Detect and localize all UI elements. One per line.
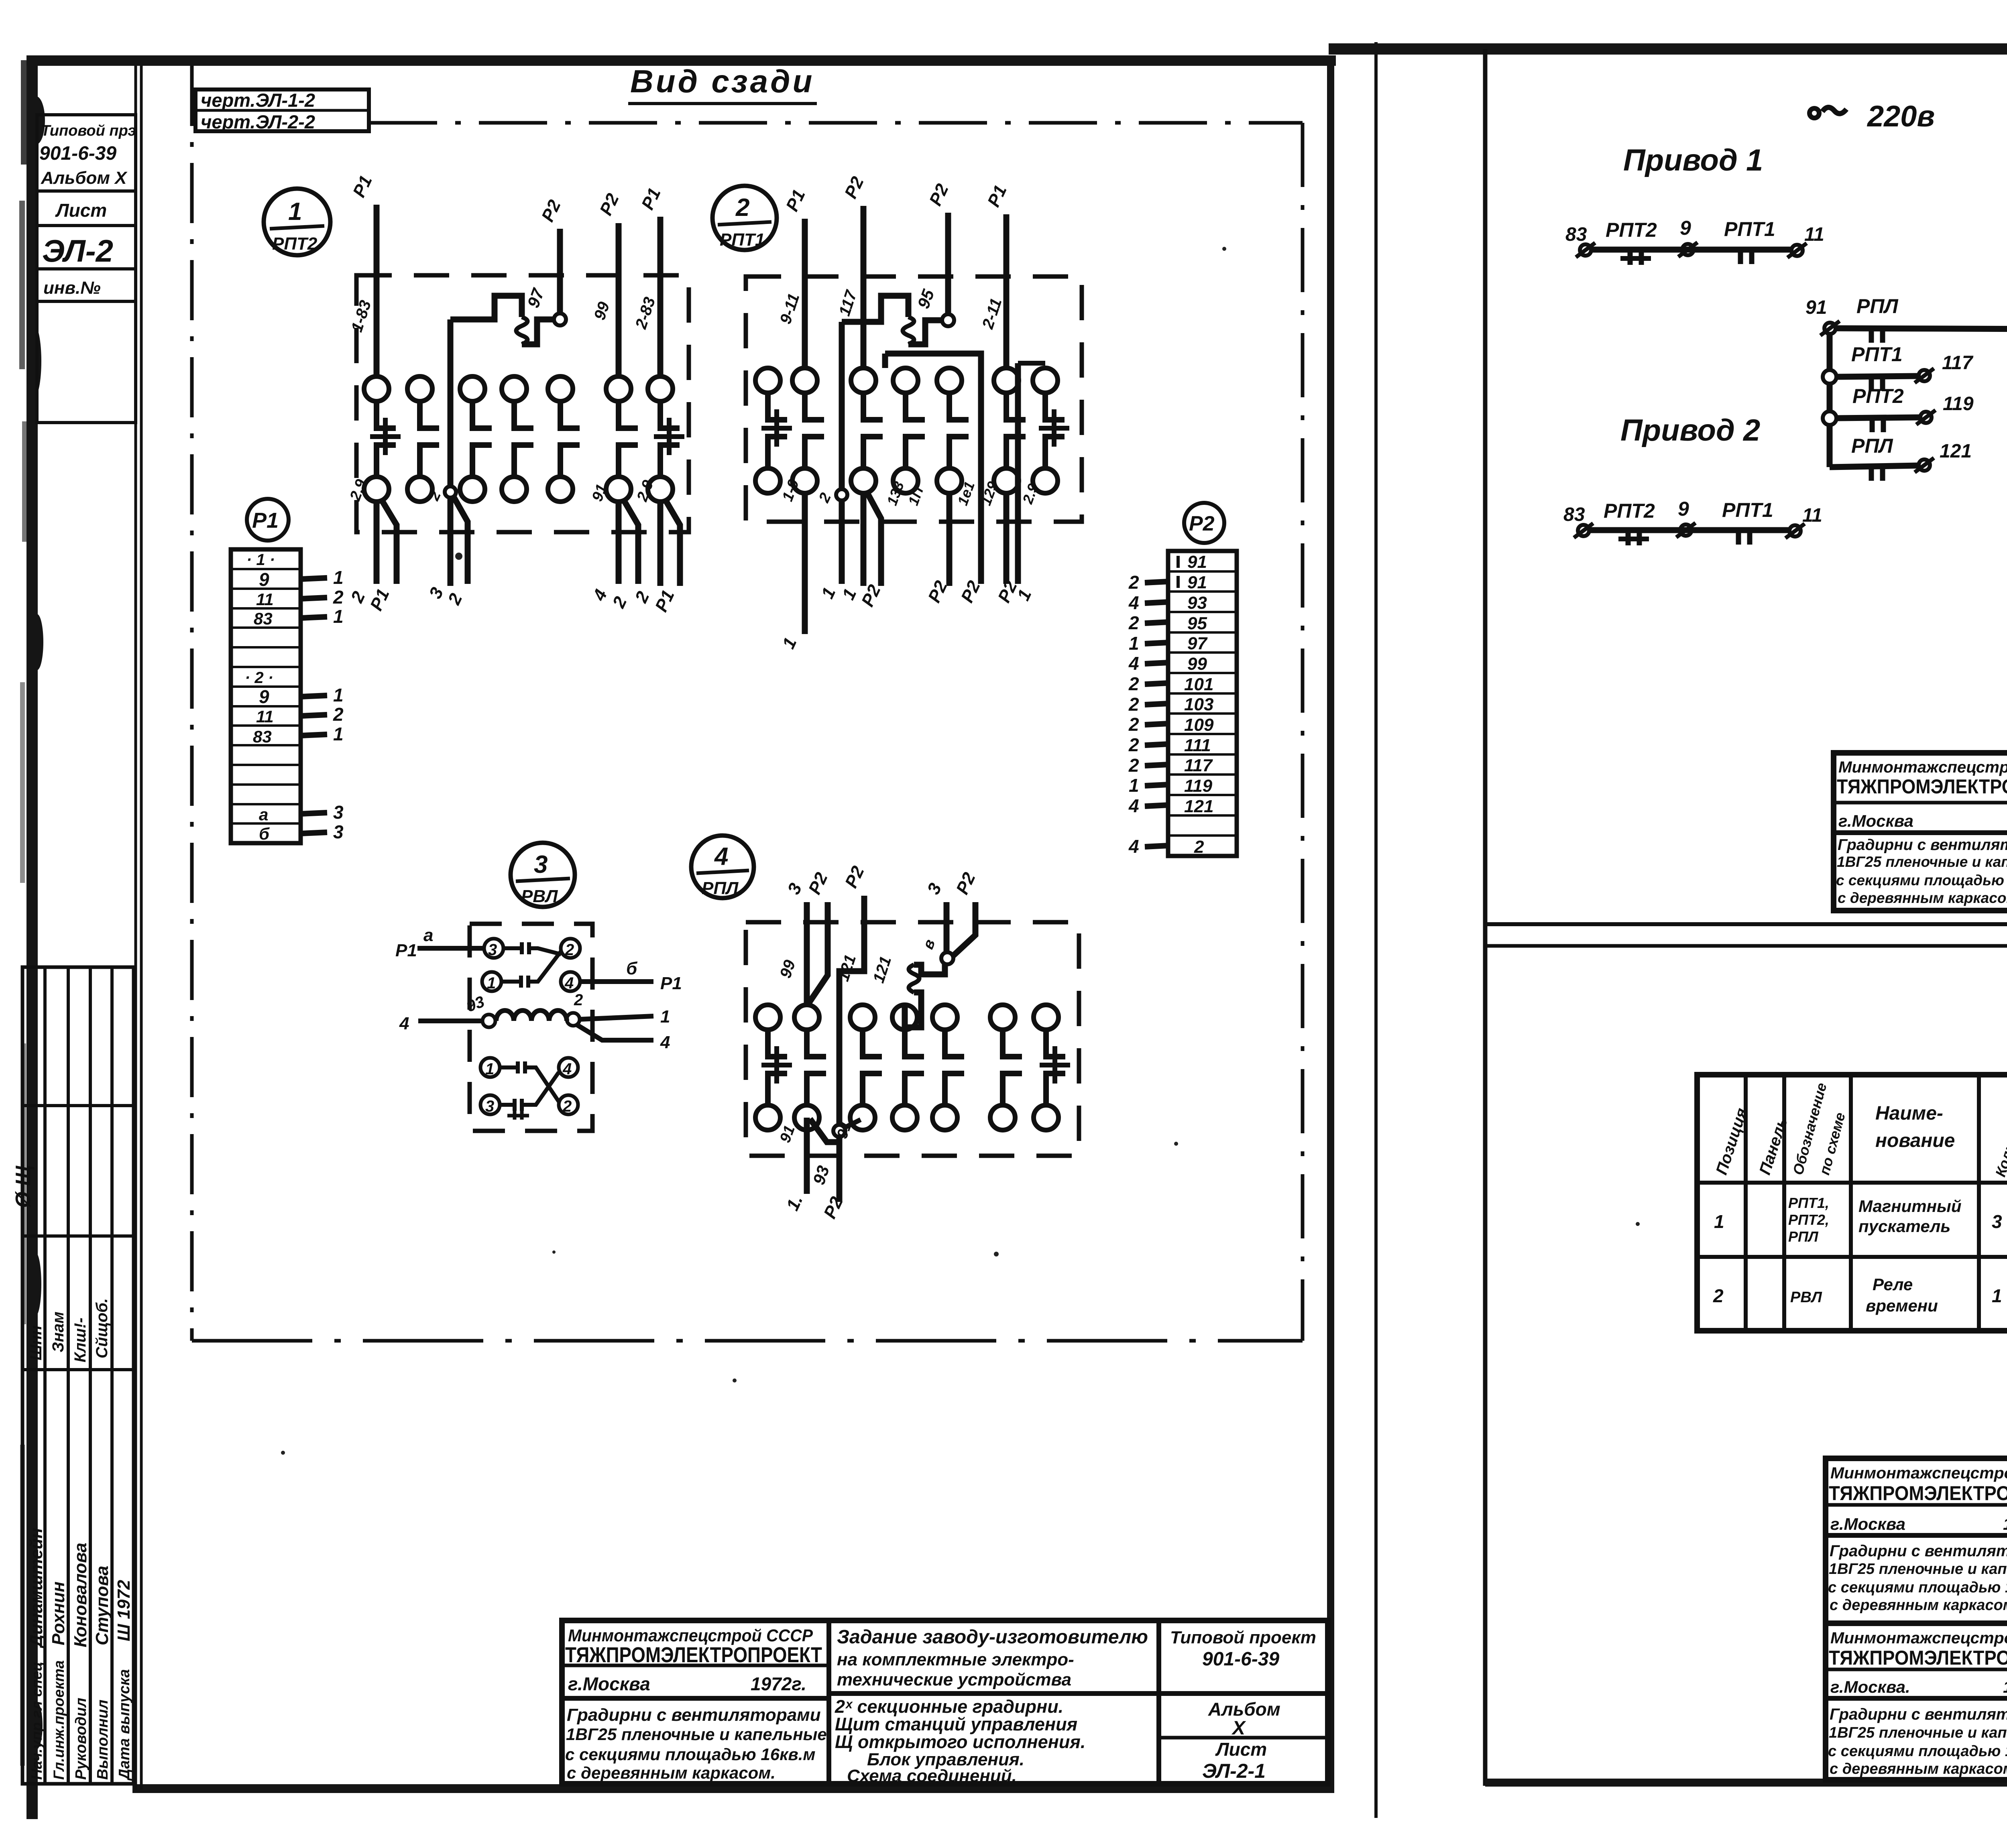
svg-text:Дата выпуска: Дата выпуска bbox=[116, 1669, 133, 1781]
svg-text:Р2: Р2 bbox=[538, 197, 565, 225]
right upper subsheet bottom edge double lines bbox=[1486, 924, 2007, 946]
svg-text:РПТ1: РПТ1 bbox=[1724, 218, 1775, 240]
svg-text:1П: 1П bbox=[905, 484, 927, 508]
svg-text:2: 2 bbox=[1128, 734, 1139, 755]
svg-text:2: 2 bbox=[1128, 673, 1139, 694]
svg-text:времени: времени bbox=[1866, 1296, 1938, 1315]
svg-text:9-11: 9-11 bbox=[777, 291, 803, 326]
svg-text:91: 91 bbox=[1805, 297, 1827, 318]
svg-text:Р1: Р1 bbox=[984, 182, 1011, 210]
svg-text:б: б bbox=[626, 959, 638, 978]
drawing frame dash-dot left vertical bbox=[190, 66, 194, 1341]
dashed enclosure РПТ2 bbox=[356, 275, 689, 532]
svg-text:2: 2 bbox=[1128, 714, 1139, 735]
stamp box: empty bbox=[37, 301, 136, 423]
wire: rail and long drops columns 4-5 bbox=[885, 354, 1045, 584]
dashed enclosure РВЛ bbox=[470, 924, 592, 1131]
svg-text:Р1: Р1 bbox=[349, 173, 376, 200]
svg-text:2.9: 2.9 bbox=[1019, 482, 1042, 506]
svg-text:Минмонтажспецстрой СССР: Минмонтажспецстрой СССР bbox=[568, 1626, 813, 1645]
svg-text:3: 3 bbox=[488, 941, 497, 959]
svg-text:83: 83 bbox=[254, 609, 273, 628]
svg-text:Количество: Количество bbox=[1992, 1088, 2007, 1179]
svg-text:1ВГ25 пленочные и капельные: 1ВГ25 пленочные и капельные bbox=[1829, 1724, 2007, 1741]
svg-text:с деревянным каркасом.: с деревянным каркасом. bbox=[1838, 890, 2007, 906]
svg-text:99: 99 bbox=[1187, 654, 1207, 674]
svg-text:ТЯЖПРОМЭЛЕКТРОПРОЕКТ: ТЯЖПРОМЭЛЕКТРОПРОЕКТ bbox=[1837, 775, 2007, 798]
svg-text:Лист: Лист bbox=[1215, 1739, 1267, 1760]
svg-text:103: 103 bbox=[1184, 695, 1213, 714]
svg-text:901-6-39: 901-6-39 bbox=[1202, 1649, 1279, 1670]
svg-text:РПЛ: РПЛ bbox=[1851, 435, 1893, 457]
svg-text:1: 1 bbox=[660, 1007, 670, 1027]
contact columns РПТ2 bbox=[364, 376, 684, 502]
drawing frame bottom bbox=[192, 1339, 1303, 1343]
Р1 leads group 2 bbox=[301, 685, 344, 744]
svg-text:11: 11 bbox=[1804, 224, 1824, 245]
svg-text:83: 83 bbox=[253, 727, 272, 746]
stamp box: инв № bbox=[37, 269, 136, 301]
svg-text:Лист: Лист bbox=[55, 200, 107, 221]
svg-text:· 2 ·: · 2 · bbox=[245, 669, 273, 687]
title Вид сзади bbox=[628, 63, 817, 104]
svg-text:· 1 ·: · 1 · bbox=[246, 551, 275, 569]
svg-text:2: 2 bbox=[333, 587, 344, 608]
svg-text:Знам: Знам bbox=[49, 1311, 67, 1352]
signature grid bbox=[22, 967, 134, 1784]
svg-text:ЭЛ-2-1: ЭЛ-2-1 bbox=[1202, 1760, 1266, 1782]
svg-text:1: 1 bbox=[1014, 586, 1036, 604]
symbol circle Р2 bbox=[1184, 503, 1224, 543]
stamp box: ЭЛ-2 bbox=[37, 226, 136, 269]
wire: stub Р2 long vertical column 3 bbox=[835, 863, 868, 1131]
svg-text:Р2: Р2 bbox=[841, 863, 868, 891]
label Привод 1 bbox=[1623, 143, 1763, 177]
svg-text:4: 4 bbox=[1128, 592, 1139, 613]
svg-text:Ш 1972: Ш 1972 bbox=[114, 1580, 134, 1641]
labels under long drops bbox=[957, 479, 1021, 606]
svg-text:Схема соединений.: Схема соединений. bbox=[847, 1766, 1017, 1786]
svg-text:3: 3 bbox=[485, 1098, 494, 1115]
svg-text:2: 2 bbox=[347, 588, 369, 606]
symbol circle 2/РПТ1 bbox=[712, 186, 777, 250]
symbol circle 1/РПТ2 bbox=[264, 189, 330, 255]
svg-text:97: 97 bbox=[523, 286, 548, 311]
svg-text:3: 3 bbox=[1992, 1211, 2002, 1232]
svg-text:9: 9 bbox=[259, 686, 269, 707]
svg-text:Реле: Реле bbox=[1873, 1275, 1913, 1294]
svg-text:11: 11 bbox=[256, 707, 274, 726]
stamp box: project id bbox=[37, 115, 136, 191]
left sheet outer left border bbox=[19, 55, 45, 1819]
chain 1: 83-РПТ2-9-РПТ1-11 bbox=[1565, 217, 1824, 265]
wire: stub Р2 diagonal to column 2 bbox=[805, 869, 832, 1002]
drawing frame dash-dot top bbox=[369, 121, 1303, 125]
svg-text:Клш!-: Клш!- bbox=[71, 1317, 89, 1362]
svg-text:с деревянным каркасом: с деревянным каркасом bbox=[1830, 1597, 2007, 1614]
wire: Р2 stub to column 6 bbox=[591, 190, 623, 376]
symbol circle 4/РПЛ bbox=[691, 836, 754, 898]
svg-text:3: 3 bbox=[784, 880, 806, 897]
svg-text:Х: Х bbox=[1231, 1718, 1246, 1739]
stamp box: Лист bbox=[37, 191, 136, 226]
wire: step jumper with squiggle to node 97 bbox=[450, 286, 566, 344]
drawing frame dash-dot right vertical bbox=[1301, 123, 1305, 1341]
svg-text:2: 2 bbox=[1713, 1285, 1724, 1306]
wire: stub 3 to column 2 bbox=[777, 880, 807, 1005]
svg-text:Р2: Р2 bbox=[596, 190, 623, 218]
svg-text:1: 1 bbox=[779, 634, 801, 652]
branch РПЛ 121 bbox=[1830, 435, 1972, 481]
svg-text:2: 2 bbox=[816, 490, 835, 506]
svg-text:1: 1 bbox=[1129, 633, 1139, 654]
wire: Р1 stub to column 6 bbox=[979, 182, 1010, 368]
svg-text:4: 4 bbox=[660, 1033, 670, 1052]
svg-text:РПЛ: РПЛ bbox=[1856, 295, 1899, 317]
svg-text:технические устройства: технические устройства bbox=[837, 1670, 1071, 1689]
svg-text:2: 2 bbox=[574, 991, 583, 1009]
dashed enclosure РПТ1 bbox=[746, 276, 1082, 522]
svg-text:Р1: Р1 bbox=[395, 941, 417, 960]
svg-text:91: 91 bbox=[1187, 573, 1207, 592]
svg-text:Альбом Х: Альбом Х bbox=[41, 168, 128, 188]
terminal table Р2 bbox=[1168, 551, 1237, 857]
svg-text:г.Москва: г.Москва bbox=[1838, 811, 1913, 830]
svg-text:4: 4 bbox=[399, 1014, 409, 1033]
svg-text:2: 2 bbox=[609, 594, 631, 611]
svg-text:Р1: Р1 bbox=[366, 586, 393, 614]
svg-text:Р1: Р1 bbox=[782, 187, 809, 214]
svg-text:3: 3 bbox=[333, 821, 344, 842]
right sheet fold thin line bbox=[1374, 42, 1378, 1818]
svg-text:пускатель: пускатель bbox=[1858, 1217, 1950, 1236]
signature scribbles row bbox=[27, 1298, 111, 1362]
svg-text:99: 99 bbox=[591, 299, 613, 322]
svg-text:1: 1 bbox=[333, 685, 344, 705]
svg-text:Минмонтажспецстрой СССР: Минмонтажспецстрой СССР bbox=[1830, 1629, 2007, 1647]
svg-text:111: 111 bbox=[1184, 736, 1211, 755]
svg-text:Наиме-: Наиме- bbox=[1875, 1103, 1943, 1124]
svg-text:2: 2 bbox=[562, 1098, 572, 1115]
svg-text:117: 117 bbox=[1942, 352, 1974, 374]
svg-text:9: 9 bbox=[1678, 498, 1689, 520]
contact columns РПТ1 bbox=[755, 368, 1069, 493]
svg-text:9: 9 bbox=[1680, 217, 1691, 239]
svg-text:Шнн: Шнн bbox=[27, 1326, 45, 1360]
svg-text:в: в bbox=[920, 937, 938, 951]
wire: stub 3 to right node bbox=[920, 880, 947, 952]
signature scribble col1 top bbox=[12, 1165, 35, 1208]
svg-text:93: 93 bbox=[1187, 593, 1207, 613]
terminal 3 (upper left) bbox=[484, 939, 503, 959]
lead Р1-а into terminal 3 bbox=[395, 925, 484, 960]
svg-text:121: 121 bbox=[1940, 441, 1972, 462]
svg-text:ТЯЖПРОМЭЛЕКТРОПРОЕКТ: ТЯЖПРОМЭЛЕКТРОПРОЕКТ bbox=[1829, 1647, 2007, 1669]
left sheet top border bbox=[26, 55, 1336, 66]
svg-text:117: 117 bbox=[836, 288, 861, 318]
svg-text:с секциями площадью 16кв.м: с секциями площадью 16кв.м bbox=[565, 1745, 815, 1764]
svg-text:РПЛ: РПЛ bbox=[702, 878, 739, 898]
svg-text:РВЛ: РВЛ bbox=[1790, 1289, 1822, 1306]
svg-text:121: 121 bbox=[870, 954, 895, 985]
svg-text:Магнитный: Магнитный bbox=[1858, 1197, 1962, 1216]
svg-text:Альбом: Альбом bbox=[1208, 1699, 1280, 1720]
wire: step jumper with squiggle РПТ1 bbox=[842, 287, 954, 344]
svg-text:Задание заводу-изготовителю: Задание заводу-изготовителю bbox=[837, 1626, 1148, 1648]
svg-text:2: 2 bbox=[1194, 837, 1204, 857]
svg-text:Типовой прэ: Типовой прэ bbox=[41, 122, 136, 139]
svg-text:4: 4 bbox=[589, 586, 611, 604]
svg-text:133: 133 bbox=[883, 479, 907, 507]
wire: column 7 bottom leads bbox=[631, 478, 680, 615]
svg-text:Ø Щ: Ø Щ bbox=[12, 1165, 35, 1208]
svg-text:с секциями площадью 16кв м: с секциями площадью 16кв м bbox=[1828, 1743, 2007, 1760]
svg-text:1: 1 bbox=[333, 567, 344, 588]
svg-text:121: 121 bbox=[1184, 797, 1213, 816]
svg-text:Градирни с вентиляторами: Градирни с вентиляторами bbox=[1838, 836, 2007, 854]
svg-text:117: 117 bbox=[1184, 756, 1213, 775]
svg-text:119: 119 bbox=[1184, 776, 1213, 796]
svg-text:РПТ2: РПТ2 bbox=[1852, 385, 1904, 407]
svg-text:Ступова: Ступова bbox=[92, 1566, 112, 1646]
svg-text:119: 119 bbox=[1943, 393, 1974, 415]
svg-text:3: 3 bbox=[534, 851, 548, 878]
svg-text:РПТ2,: РПТ2, bbox=[1788, 1212, 1829, 1228]
svg-text:1: 1 bbox=[288, 198, 302, 226]
svg-text:РПТ1,: РПТ1, bbox=[1788, 1195, 1829, 1211]
svg-text:1: 1 bbox=[487, 974, 496, 992]
svg-text:РПТ2: РПТ2 bbox=[272, 234, 318, 254]
wire: column 6 bottom lead bbox=[1006, 482, 1042, 604]
wire: long vertical column 3 with jumper bbox=[816, 322, 847, 602]
svg-text:3: 3 bbox=[924, 880, 946, 897]
черт reference box bbox=[195, 89, 369, 132]
svg-text:4: 4 bbox=[562, 1060, 572, 1078]
svg-text:РВЛ: РВЛ bbox=[521, 886, 558, 906]
svg-text:1-83: 1-83 bbox=[348, 298, 375, 334]
svg-text:2: 2 bbox=[735, 194, 749, 222]
wire: column 2 long bottom lead bbox=[779, 477, 805, 652]
wire: Р1 stub to column 2 bbox=[777, 187, 809, 368]
svg-text:2: 2 bbox=[1128, 572, 1139, 593]
names column (rotated) bbox=[26, 1528, 134, 1649]
svg-text:РПТ2: РПТ2 bbox=[1604, 500, 1655, 522]
svg-text:4: 4 bbox=[564, 974, 574, 992]
svg-text:Р2: Р2 bbox=[926, 181, 953, 209]
svg-text:РПТ1: РПТ1 bbox=[720, 230, 765, 250]
svg-text:2: 2 bbox=[444, 590, 466, 608]
terminal 4 (second row right) bbox=[561, 972, 580, 992]
svg-text:1ВГ25 пленочные и капельные: 1ВГ25 пленочные и капельные bbox=[1837, 854, 2007, 870]
svg-text:Привод 2: Привод 2 bbox=[1620, 413, 1760, 447]
right sheet top border bbox=[1329, 43, 2007, 55]
svg-text:Динамштейн: Динамштейн bbox=[26, 1528, 46, 1649]
svg-text:83: 83 bbox=[1565, 224, 1587, 245]
svg-text:121: 121 bbox=[835, 953, 859, 984]
svg-text:1972г.: 1972г. bbox=[2003, 1515, 2007, 1533]
lower contact and crossing wires bbox=[500, 1061, 559, 1120]
svg-text:95: 95 bbox=[1187, 614, 1207, 633]
svg-text:1972г: 1972г bbox=[2003, 1677, 2007, 1696]
svg-text:1: 1 bbox=[818, 584, 840, 602]
terminal 3 (bottom left) bbox=[480, 1095, 500, 1115]
svg-text:Сйщоб.: Сйщоб. bbox=[93, 1298, 111, 1358]
svg-text:РПТ1: РПТ1 bbox=[1851, 343, 1903, 366]
label Привод 2 bbox=[1620, 413, 1760, 447]
Р1 leads group 1 bbox=[301, 567, 344, 627]
svg-text:Минмонтажспецстрой СССР: Минмонтажспецстрой СССР bbox=[1838, 758, 2007, 776]
relay coil РВЛ bbox=[482, 991, 583, 1027]
svg-text:11: 11 bbox=[256, 590, 274, 609]
scan specks bbox=[281, 247, 2007, 1455]
ladder vertical from 91 bbox=[1827, 333, 1833, 467]
svg-text:1: 1 bbox=[485, 1060, 494, 1078]
terminal 1 (second row left) bbox=[482, 972, 501, 992]
svg-text:2-11: 2-11 bbox=[979, 296, 1005, 331]
wire: Р1 stub to column 7 bbox=[632, 185, 664, 376]
terminal 2 (bottom right) bbox=[559, 1095, 578, 1115]
wire: Р2 stub to column 3 bbox=[836, 173, 868, 368]
svg-text:г.Москва: г.Москва bbox=[1830, 1515, 1905, 1533]
svg-text:901-6-39: 901-6-39 bbox=[39, 143, 116, 164]
svg-text:11: 11 bbox=[1802, 505, 1822, 526]
upper contact and crossing wires bbox=[501, 942, 561, 988]
svg-text:83: 83 bbox=[1563, 504, 1585, 525]
svg-text:1: 1 bbox=[1129, 775, 1139, 796]
Р1 leads group 3 bbox=[301, 802, 344, 842]
wire: column 6 bottom leads bbox=[589, 482, 638, 611]
branch РПТ2 119 bbox=[1823, 385, 1974, 432]
svg-text:1972г.: 1972г. bbox=[751, 1673, 806, 1694]
svg-text:Р2: Р2 bbox=[805, 869, 832, 897]
svg-text:2: 2 bbox=[631, 588, 653, 606]
svg-text:Минмонтажспецстрой СССР: Минмонтажспецстрой СССР bbox=[1830, 1464, 2007, 1482]
left sheet right border bbox=[1327, 55, 1334, 1793]
svg-text:4: 4 bbox=[714, 843, 728, 870]
svg-text:93: 93 bbox=[809, 1163, 833, 1187]
wire: node and bottom leads РПЛ bbox=[777, 1118, 861, 1222]
svg-text:черт.ЭЛ-1-2: черт.ЭЛ-1-2 bbox=[201, 89, 315, 111]
svg-text:с деревянным каркасом.: с деревянным каркасом. bbox=[567, 1763, 776, 1782]
svg-text:на комплектные электро-: на комплектные электро- bbox=[837, 1650, 1074, 1669]
svg-text:2: 2 bbox=[333, 704, 344, 725]
wire: column 1 bottom leads bbox=[347, 477, 397, 614]
svg-text:2: 2 bbox=[1128, 694, 1139, 715]
svg-text:Градирни с вентиляторами: Градирни с вентиляторами bbox=[567, 1705, 821, 1725]
svg-text:Градирни с вентиляторами: Градирни с вентиляторами bbox=[1830, 1542, 2007, 1560]
wire: Р2 stub to node bbox=[538, 197, 565, 314]
svg-text:2: 2 bbox=[1128, 612, 1139, 633]
symbol circle Р1 bbox=[247, 499, 289, 541]
right sheet inner frame left vertical bbox=[1483, 49, 1488, 1786]
svg-text:Р1: Р1 bbox=[660, 974, 682, 993]
wire: Р1 stub to column 1 bbox=[348, 173, 377, 376]
role labels (rotated) bbox=[28, 1660, 133, 1781]
svg-text:9: 9 bbox=[259, 569, 269, 590]
leads 1 and 4 from coil right bbox=[576, 1007, 670, 1052]
svg-text:Типовой проект: Типовой проект bbox=[1170, 1628, 1316, 1647]
svg-text:Рохнин: Рохнин bbox=[49, 1582, 68, 1645]
svg-text:109: 109 bbox=[1184, 715, 1214, 735]
svg-text:Щ открытого исполнения.: Щ открытого исполнения. bbox=[835, 1732, 1085, 1752]
svg-text:Привод 1: Привод 1 bbox=[1623, 143, 1763, 177]
svg-text:а: а bbox=[423, 925, 433, 945]
svg-text:1: 1 bbox=[333, 606, 344, 627]
svg-text:с секциями площадью 16кв.м: с секциями площадью 16кв.м bbox=[1828, 1579, 2007, 1596]
svg-text:Выполнил: Выполнил bbox=[94, 1700, 111, 1780]
svg-text:4: 4 bbox=[1128, 795, 1139, 816]
svg-text:91: 91 bbox=[1187, 552, 1207, 572]
svg-text:черт.ЭЛ-2-2: черт.ЭЛ-2-2 bbox=[201, 111, 315, 132]
wire: long vertical with node at column 3 bbox=[425, 319, 468, 608]
svg-text:нование: нование bbox=[1875, 1130, 1955, 1151]
svg-text:РПЛ: РПЛ bbox=[1788, 1228, 1819, 1245]
chain 2: 83-РПТ2-9-РПТ1-11 bbox=[1563, 498, 1822, 545]
svg-text:2: 2 bbox=[1128, 755, 1139, 776]
wire: right node and zigzag with coil bbox=[870, 952, 953, 1027]
lead б Р1 from terminal 4 bbox=[580, 959, 682, 993]
svg-text:ТЯЖПРОМЭЛЕКТРОПРОЕКТ: ТЯЖПРОМЭЛЕКТРОПРОЕКТ bbox=[565, 1643, 822, 1667]
svg-text:ЭЛ-2: ЭЛ-2 bbox=[42, 233, 113, 268]
terminal table Р1 bbox=[231, 549, 301, 843]
svg-text:Р1: Р1 bbox=[638, 185, 665, 213]
svg-text:г.Москва.: г.Москва. bbox=[1830, 1677, 1910, 1696]
svg-text:Градирни с вентиляторами: Градирни с вентиляторами bbox=[1830, 1706, 2007, 1723]
svg-text:с секциями площадью 16кв.м: с секциями площадью 16кв.м bbox=[1836, 872, 2007, 888]
svg-text:Р1: Р1 bbox=[651, 587, 678, 615]
svg-text:1: 1 bbox=[333, 724, 344, 744]
svg-text:инв.№: инв.№ bbox=[43, 278, 101, 298]
svg-text:а: а bbox=[259, 805, 268, 824]
svg-text:б: б bbox=[259, 824, 270, 843]
svg-text:4: 4 bbox=[1128, 653, 1139, 674]
svg-text:3: 3 bbox=[333, 802, 344, 823]
svg-text:1: 1 bbox=[1992, 1285, 2002, 1306]
svg-text:1: 1 bbox=[1714, 1211, 1724, 1232]
branch РПТ1 117 bbox=[1823, 343, 1974, 391]
svg-text:2-83: 2-83 bbox=[632, 295, 659, 331]
svg-text:Коновалова: Коновалова bbox=[71, 1543, 90, 1647]
terminal 2 (upper right) bbox=[561, 939, 580, 959]
svg-text:Руководил: Руководил bbox=[73, 1698, 90, 1780]
svg-text:РПТ2: РПТ2 bbox=[1606, 219, 1657, 241]
wire: stub Р2 diagonal to right node bbox=[952, 869, 979, 957]
dashed enclosure РПЛ bbox=[746, 922, 1079, 1156]
svg-text:2: 2 bbox=[565, 941, 574, 959]
svg-text:Р2: Р2 bbox=[953, 869, 979, 897]
svg-text:с деревянным каркасом.: с деревянным каркасом. bbox=[1830, 1761, 2007, 1777]
terminal 4 (third row right) bbox=[559, 1058, 578, 1078]
svg-text:Нач.упр гл спец: Нач.упр гл спец bbox=[28, 1661, 45, 1780]
220V source mark bbox=[1810, 100, 1935, 133]
svg-text:1ВГ25 пленочные и капельные: 1ВГ25 пленочные и капельные bbox=[1829, 1561, 2007, 1578]
svg-text:220в: 220в bbox=[1867, 100, 1935, 133]
svg-text:ТЯЖПРОМЭЛЕКТРОПРОЕКТ: ТЯЖПРОМЭЛЕКТРОПРОЕКТ bbox=[1829, 1482, 2007, 1504]
svg-text:Р2: Р2 bbox=[820, 1193, 847, 1222]
wire: Р2 stub to jumper node bbox=[926, 181, 953, 315]
svg-text:РПТ1: РПТ1 bbox=[1722, 499, 1773, 521]
svg-text:Р1: Р1 bbox=[252, 508, 279, 533]
stamp column right double line bbox=[136, 66, 141, 1790]
terminal 1 (third row left) bbox=[480, 1058, 500, 1078]
svg-text:1: 1 bbox=[839, 586, 861, 603]
svg-text:1ВГ25 пленочные и капельные: 1ВГ25 пленочные и капельные bbox=[566, 1725, 827, 1744]
left sheet bottom border bbox=[132, 1784, 1334, 1793]
symbol circle 3/РВЛ bbox=[511, 843, 575, 907]
svg-text:Гл.инж.проекта: Гл.инж.проекта bbox=[51, 1660, 67, 1780]
svg-text:97: 97 bbox=[1187, 634, 1208, 653]
Р2 leads left bbox=[1128, 572, 1169, 857]
